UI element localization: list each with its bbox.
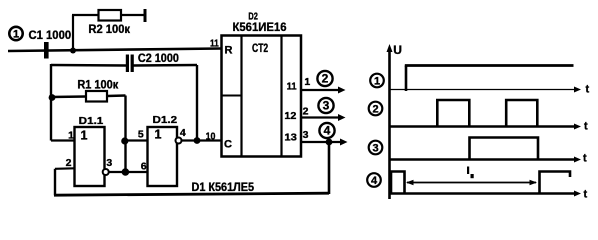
svg-text:4: 4 xyxy=(371,175,378,187)
svg-text:2: 2 xyxy=(303,106,309,118)
svg-text:C: C xyxy=(224,138,232,150)
svg-text:D1.1: D1.1 xyxy=(79,115,104,127)
svg-text:11: 11 xyxy=(210,37,219,49)
svg-text:3: 3 xyxy=(323,99,330,113)
svg-text:D1 К561ЛЕ5: D1 К561ЛЕ5 xyxy=(192,180,255,194)
svg-text:D1.2: D1.2 xyxy=(153,114,178,126)
svg-text:5: 5 xyxy=(138,129,144,141)
svg-text:4: 4 xyxy=(180,127,186,139)
svg-text:1: 1 xyxy=(13,28,19,40)
svg-text:4: 4 xyxy=(324,124,331,138)
svg-text:R1 100к: R1 100к xyxy=(77,77,119,91)
svg-text:t: t xyxy=(586,84,590,96)
svg-text:2: 2 xyxy=(372,104,378,116)
svg-text:1: 1 xyxy=(81,129,88,143)
svg-text:3: 3 xyxy=(303,129,309,141)
svg-text:1: 1 xyxy=(68,129,74,141)
svg-text:3: 3 xyxy=(372,143,378,155)
svg-text:C2 1000: C2 1000 xyxy=(138,51,179,65)
svg-text:2: 2 xyxy=(322,72,329,86)
svg-text:6: 6 xyxy=(141,160,147,172)
svg-text:2: 2 xyxy=(66,157,72,169)
svg-text:t: t xyxy=(584,121,588,133)
svg-text:10: 10 xyxy=(206,131,216,143)
svg-text:CT2: CT2 xyxy=(252,41,268,55)
svg-text:R2 100к: R2 100к xyxy=(88,22,131,36)
svg-text:13: 13 xyxy=(284,132,297,144)
svg-text:12: 12 xyxy=(284,110,296,122)
svg-text:R: R xyxy=(225,44,233,56)
svg-text:t: t xyxy=(584,188,588,200)
svg-text:U: U xyxy=(393,43,402,57)
svg-text:3: 3 xyxy=(106,157,112,169)
svg-text:C1 1000: C1 1000 xyxy=(29,28,72,42)
svg-text:11: 11 xyxy=(287,81,297,93)
svg-text:1: 1 xyxy=(155,128,162,142)
svg-text:t: t xyxy=(583,153,587,165)
svg-text:1: 1 xyxy=(304,76,310,88)
svg-text:1: 1 xyxy=(374,76,380,88)
svg-text:К561ИЕ16: К561ИЕ16 xyxy=(233,20,287,34)
